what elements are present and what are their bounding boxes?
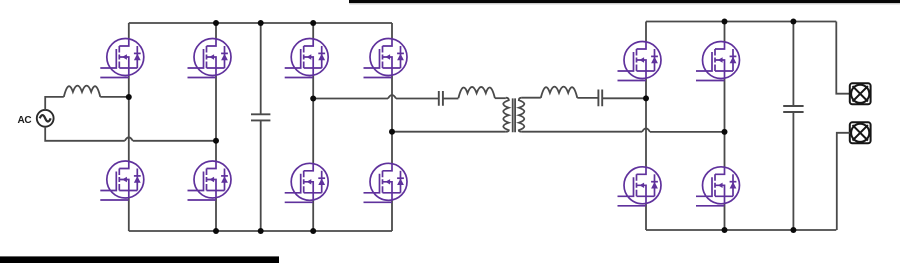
junction top rail / C1 xyxy=(258,20,264,26)
wire bridge2 leg2 lower xyxy=(391,200,393,231)
wire bridge3 leg2 middle xyxy=(724,78,726,167)
transformer T1 secondary winding xyxy=(519,98,525,132)
wire bridge2 leg2 middle xyxy=(391,75,393,164)
node bridge1 leg1 midpoint xyxy=(126,94,132,100)
wire output positive branch xyxy=(836,22,850,94)
wire C3 to bridge3 leg1 midpoint xyxy=(602,97,646,99)
load X2 (lamp) xyxy=(850,122,871,143)
transformer T1 core xyxy=(513,98,515,132)
junction bottom rail / bridge3 leg2 xyxy=(722,227,728,233)
junction bottom rail / bridge2 leg1 xyxy=(310,228,316,234)
mosfet Q12 bridge3 lower-right xyxy=(696,167,740,206)
mosfet Q4 bridge1 lower-right xyxy=(188,161,232,200)
wire bottom rail (bridge1-bridge2) xyxy=(129,230,392,232)
wire L2 to transformer primary xyxy=(495,97,506,99)
capacitor C1 lower lead xyxy=(260,120,262,231)
wire bridge2 leg1 upper xyxy=(312,23,314,39)
node bridge1 leg2 midpoint xyxy=(213,138,219,144)
capacitor C4 plates xyxy=(783,106,803,112)
svg-text:AC: AC xyxy=(18,115,32,126)
wire L1 to bridge1 leg1 midpoint xyxy=(100,96,129,98)
mosfet Q1 bridge1 upper-left xyxy=(100,39,144,78)
wire hop over leg1 xyxy=(125,137,133,141)
mosfet Q5 bridge2 upper-left xyxy=(285,39,329,78)
inductor L2 xyxy=(458,87,495,98)
mosfet Q10 bridge3 upper-right xyxy=(696,42,740,81)
wire bridge3 leg2 lower xyxy=(724,203,726,230)
AC source V1 xyxy=(37,110,54,127)
wire bridge2 leg1 lower xyxy=(312,200,314,231)
junction bottom rail / C1 xyxy=(258,228,264,234)
wire bridge1 leg2 middle xyxy=(215,75,217,162)
wire bridge1 leg2 upper xyxy=(215,23,217,39)
junction top rail / C4 xyxy=(790,19,796,25)
mosfet Q3 bridge1 lower-left xyxy=(100,161,144,200)
mosfet Q6 bridge2 upper-right xyxy=(364,39,408,78)
wire bridge2 leg2 upper xyxy=(391,23,393,39)
wire to bridge3 leg2 midpoint xyxy=(650,131,725,133)
wire hop over bridge2 leg2 xyxy=(388,95,396,99)
mosfet Q2 bridge1 upper-right xyxy=(188,39,232,78)
wire bridge1 leg2 lower xyxy=(215,198,217,232)
wire primary bottom to bridge2 leg2 midpoint xyxy=(392,131,506,133)
wire bottom rail bridge3 xyxy=(646,229,836,231)
wire bridge3 leg1 upper xyxy=(645,22,647,43)
wire top rail bridge3 xyxy=(646,21,836,23)
load X1 (lamp) xyxy=(850,83,871,104)
junction top rail / leg2 xyxy=(213,20,219,26)
capacitor C1 plates xyxy=(251,114,270,120)
inductor L1 xyxy=(64,86,101,97)
wire C2 to L2 xyxy=(443,98,459,100)
capacitor C1 upper lead xyxy=(260,23,262,114)
wire secondary top to L3 xyxy=(522,97,541,99)
wire output negative branch xyxy=(837,133,850,230)
junction bottom rail / leg2 xyxy=(213,228,219,234)
mosfet Q11 bridge3 lower-left xyxy=(618,167,662,206)
wire bridge1 leg1 lower xyxy=(128,198,130,232)
node bridge3 leg2 midpoint xyxy=(722,129,728,135)
wire top rail (bridge1-bridge2) xyxy=(129,22,392,24)
wire hop over bridge3 leg1 xyxy=(642,128,650,132)
junction top rail / bridge2 leg1 xyxy=(310,20,316,26)
mosfet Q9 bridge3 upper-left xyxy=(618,42,662,81)
wire L3 to capacitor C3 xyxy=(577,97,598,99)
wire bridge3 leg1 middle xyxy=(645,78,647,167)
wire bridge1 leg1 upper xyxy=(128,23,130,39)
node bridge2 leg2 midpoint xyxy=(389,129,395,135)
wire AC bottom lead xyxy=(45,127,125,141)
capacitor C2 plates xyxy=(439,91,443,106)
mosfet Q8 bridge2 lower-right xyxy=(364,163,408,202)
wire to capacitor C2 xyxy=(396,98,439,100)
wire AC return to bridge1 leg2 midpoint xyxy=(133,140,216,142)
mosfet Q7 bridge2 lower-left xyxy=(285,163,329,202)
wire bridge1 leg1 middle xyxy=(128,75,130,162)
wire bridge2 leg1 midpoint to C2 xyxy=(313,98,388,100)
wire bridge3 leg2 upper xyxy=(724,22,726,43)
inductor L3 xyxy=(541,87,578,98)
node bridge3 leg1 midpoint xyxy=(643,95,649,101)
wire bridge2 leg1 middle xyxy=(312,75,314,164)
capacitor C3 plates xyxy=(598,90,602,107)
transformer T1 primary winding xyxy=(503,98,509,132)
junction bottom rail / C4 xyxy=(790,227,796,233)
wire AC top lead xyxy=(45,97,64,110)
node bridge2 leg1 midpoint xyxy=(310,96,316,102)
capacitor C4 lower lead xyxy=(792,112,794,230)
wire bridge3 leg1 lower xyxy=(645,203,647,230)
capacitor C4 upper lead xyxy=(792,22,794,107)
wire secondary bottom toward bridge3 xyxy=(522,131,642,133)
junction top rail / bridge3 leg2 xyxy=(722,19,728,25)
